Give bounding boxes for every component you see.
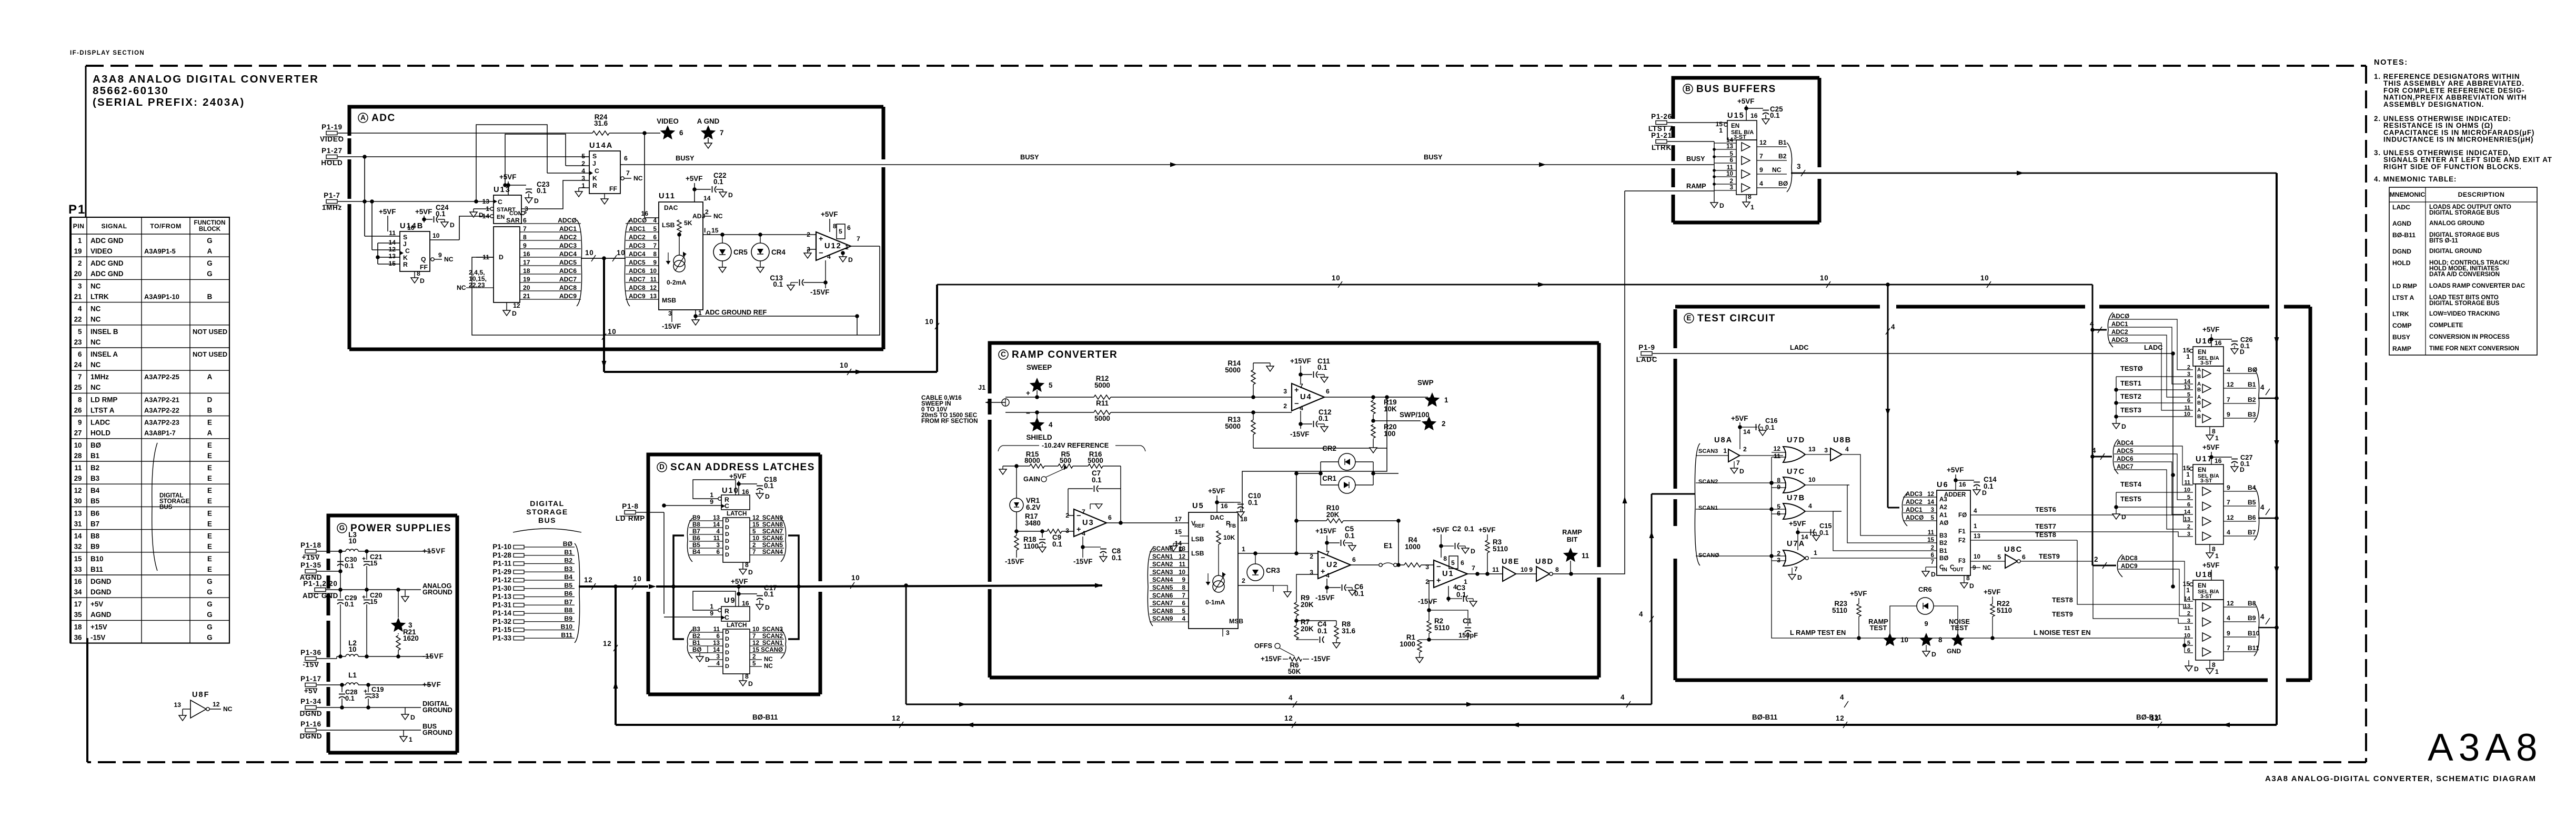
- zener VR1 6.2V: [1010, 498, 1023, 512]
- svg-text:D: D: [207, 396, 213, 403]
- svg-text:C: C: [1001, 350, 1006, 358]
- svg-text:0.1: 0.1: [1052, 540, 1062, 548]
- svg-text:4: 4: [1759, 180, 1763, 187]
- svg-text:E: E: [207, 543, 212, 551]
- svg-text:EN: EN: [1731, 123, 1739, 129]
- svg-text:6: 6: [847, 224, 851, 231]
- svg-text:ADC GND: ADC GND: [90, 259, 124, 267]
- svg-text:BUSY: BUSY: [1424, 153, 1443, 161]
- svg-text:ADC8: ADC8: [629, 285, 646, 291]
- svg-text:2: 2: [581, 160, 585, 167]
- svg-text:GND: GND: [1947, 648, 1961, 655]
- svg-text:11: 11: [2184, 405, 2190, 411]
- svg-text:D: D: [848, 256, 853, 264]
- test point star 3 power: [391, 618, 406, 632]
- svg-text:PIN: PIN: [73, 223, 85, 230]
- brace right U18 outputs: [2254, 603, 2259, 656]
- svg-text:4: 4: [1289, 694, 1293, 702]
- digital storage bus brace top: [513, 529, 581, 532]
- svg-text:SCANØ: SCANØ: [761, 646, 783, 653]
- svg-text:5: 5: [1049, 381, 1053, 389]
- svg-text:+15V: +15V: [90, 623, 107, 631]
- svg-text:LADC: LADC: [90, 419, 110, 427]
- svg-text:−: −: [1076, 512, 1081, 520]
- svg-text:CR1: CR1: [1322, 474, 1336, 482]
- svg-text:4: 4: [1326, 572, 1330, 579]
- svg-text:8: 8: [745, 561, 749, 569]
- svg-text:B6: B6: [90, 509, 99, 517]
- svg-text:E: E: [207, 419, 212, 427]
- block E title: [1684, 314, 1694, 323]
- svg-text:6: 6: [1730, 157, 1734, 164]
- svg-text:LD RMP: LD RMP: [2392, 282, 2417, 290]
- svg-text:SCAN3: SCAN3: [1698, 448, 1718, 454]
- svg-text:5: 5: [752, 660, 756, 667]
- svg-text:BØ: BØ: [1939, 555, 1948, 562]
- svg-text:+: +: [1321, 568, 1325, 576]
- svg-text:B10: B10: [561, 623, 573, 631]
- svg-text:5: 5: [1182, 608, 1186, 614]
- U18 gate column: [2196, 600, 2223, 660]
- svg-text:P1-35: P1-35: [300, 561, 321, 569]
- svg-text:AGND: AGND: [2392, 220, 2411, 227]
- svg-text:+5VF: +5VF: [422, 681, 441, 689]
- svg-text:10K: 10K: [1384, 405, 1397, 413]
- svg-text:6: 6: [2187, 398, 2190, 404]
- svg-text:P1-8: P1-8: [622, 502, 639, 510]
- svg-text:D: D: [725, 538, 729, 544]
- svg-text:17: 17: [1174, 515, 1182, 523]
- svg-text:35: 35: [74, 611, 82, 619]
- svg-text:B5: B5: [90, 497, 100, 505]
- svg-text:D: D: [1797, 574, 1803, 581]
- svg-text:SCAN5: SCAN5: [1152, 584, 1173, 591]
- wire LD RMP to U10 clock: [664, 505, 721, 506]
- wire CR6 loop: [1890, 606, 1917, 638]
- svg-text:LADC: LADC: [1636, 356, 1657, 363]
- svg-text:33: 33: [371, 692, 379, 700]
- svg-text:13: 13: [650, 293, 657, 300]
- svg-text:AGND: AGND: [90, 611, 112, 619]
- svg-text:-15V: -15V: [90, 633, 105, 641]
- svg-text:DGND: DGND: [90, 588, 112, 596]
- svg-text:SCAN6: SCAN6: [1152, 592, 1173, 599]
- svg-text:C: C: [405, 247, 410, 255]
- svg-text:BØ: BØ: [563, 540, 572, 548]
- svg-text:P1-19: P1-19: [321, 123, 343, 131]
- bus 4 scan into gates: [1652, 493, 1695, 495]
- svg-text:A3A8 ANALOG-DIGITAL CONVERTER,: A3A8 ANALOG-DIGITAL CONVERTER, SCHEMATIC…: [2265, 774, 2537, 783]
- svg-text:8: 8: [1182, 584, 1186, 591]
- op-amp U2: [1318, 551, 1351, 579]
- function block E TEST CIRCUIT border: [1675, 305, 1880, 309]
- svg-text:U11: U11: [659, 192, 676, 200]
- svg-text:D: D: [725, 643, 729, 649]
- svg-text:13: 13: [74, 509, 82, 517]
- svg-text:OFFS: OFFS: [1254, 642, 1273, 650]
- op-amp U4: [1292, 383, 1324, 411]
- svg-text:LSB: LSB: [1191, 535, 1204, 543]
- svg-text:ADC3: ADC3: [2111, 337, 2128, 343]
- svg-text:10: 10: [1726, 170, 1733, 177]
- svg-text:1: 1: [1723, 447, 1727, 454]
- svg-text:MNEMONIC: MNEMONIC: [2390, 191, 2426, 198]
- svg-text:D: D: [705, 656, 710, 663]
- svg-text:NOT USED: NOT USED: [193, 328, 227, 336]
- svg-text:6: 6: [78, 350, 82, 358]
- svg-text:B1: B1: [1778, 139, 1787, 146]
- wire U1 output: [1467, 573, 1503, 574]
- svg-text:U8A: U8A: [1714, 436, 1733, 444]
- svg-text:B7: B7: [564, 598, 572, 605]
- svg-text:FF: FF: [609, 185, 617, 193]
- svg-text:TEST9: TEST9: [2052, 610, 2073, 618]
- svg-text:0.1: 0.1: [1464, 525, 1474, 533]
- svg-text:P1-11: P1-11: [493, 560, 512, 568]
- svg-text:E: E: [207, 464, 212, 472]
- svg-text:REF: REF: [1194, 523, 1205, 529]
- ground analog: [405, 590, 406, 597]
- svg-text:+: +: [1026, 389, 1030, 397]
- svg-text:LOADS RAMP CONVERTER DAC: LOADS RAMP CONVERTER DAC: [2429, 282, 2525, 289]
- svg-text:LATCH: LATCH: [727, 510, 747, 517]
- svg-text:C1: C1: [1463, 617, 1472, 625]
- U3 pin7 gnd flag: [1090, 504, 1091, 509]
- svg-text:5000: 5000: [1088, 457, 1103, 464]
- svg-text:B6: B6: [692, 535, 700, 542]
- wire U18 unused input ties: [2185, 645, 2193, 646]
- svg-text:13: 13: [482, 198, 489, 205]
- bus 4 ADC0-3 into test circuit top: [1887, 285, 1889, 508]
- svg-text:2: 2: [1743, 446, 1747, 453]
- svg-text:-15VF: -15VF: [810, 288, 829, 296]
- svg-text:4: 4: [717, 528, 720, 535]
- svg-text:+5VF: +5VF: [1984, 588, 2000, 596]
- svg-text:3: 3: [2187, 371, 2190, 378]
- svg-text:A: A: [207, 373, 213, 381]
- svg-text:−: −: [819, 249, 823, 258]
- test point star SHIELD 4: [1030, 417, 1045, 431]
- svg-text:+5VF: +5VF: [731, 578, 748, 585]
- svg-text:26: 26: [74, 406, 82, 414]
- svg-text:TEST CIRCUIT: TEST CIRCUIT: [1697, 313, 1776, 324]
- svg-text:3-ST: 3-ST: [2200, 478, 2212, 484]
- svg-text:NOT USED: NOT USED: [193, 350, 227, 358]
- svg-text:500: 500: [1060, 457, 1071, 464]
- svg-text:DGND: DGND: [90, 578, 112, 585]
- svg-text:VIDEO: VIDEO: [90, 247, 113, 255]
- svg-text:13: 13: [1808, 446, 1816, 453]
- svg-text:4: 4: [827, 253, 831, 260]
- ground under U18 left: [2188, 660, 2189, 666]
- svg-text:FROM RF SECTION: FROM RF SECTION: [921, 418, 978, 424]
- svg-text:C2: C2: [1452, 525, 1461, 533]
- U17 gate column: [2196, 484, 2223, 544]
- block A title: [358, 113, 368, 123]
- svg-text:FB: FB: [1229, 523, 1236, 529]
- svg-text:D: D: [479, 211, 484, 219]
- svg-text:4: 4: [2260, 503, 2265, 511]
- svg-text:TEST3: TEST3: [2120, 406, 2141, 414]
- wire C7 to U3 minus: [1068, 489, 1074, 515]
- svg-text:7: 7: [1736, 459, 1740, 467]
- svg-text:ADC1: ADC1: [559, 225, 577, 232]
- bus 10 vertical to ADC bundles right: [2092, 285, 2094, 565]
- svg-text:SCAN9: SCAN9: [1152, 615, 1173, 622]
- svg-text:A3A7P2-23: A3A7P2-23: [144, 419, 179, 427]
- svg-text:B11: B11: [90, 565, 103, 573]
- svg-text:B6: B6: [2248, 514, 2256, 521]
- svg-text:MSB: MSB: [662, 297, 676, 304]
- digital storage bus brace in P1 table: [152, 443, 157, 571]
- svg-text:A3A8P1-7: A3A8P1-7: [144, 429, 176, 437]
- svg-text:9: 9: [710, 498, 713, 506]
- svg-text:LTST A: LTST A: [2392, 294, 2414, 301]
- svg-text:+5VF: +5VF: [1731, 414, 1748, 422]
- svg-text:F1: F1: [1958, 528, 1966, 535]
- svg-text:SCAN3: SCAN3: [762, 626, 783, 633]
- svg-text:B5: B5: [692, 542, 700, 549]
- svg-text:15: 15: [370, 559, 377, 567]
- svg-text:LSB: LSB: [1191, 550, 1204, 557]
- svg-text:G: G: [207, 237, 212, 245]
- buffer U15 gate column: [1736, 140, 1757, 195]
- svg-text:SCAN2: SCAN2: [1152, 561, 1173, 568]
- svg-text:BLOCK: BLOCK: [199, 226, 221, 232]
- wire +15V filter caps: [340, 551, 341, 590]
- svg-text:5: 5: [2187, 494, 2190, 501]
- svg-text:7: 7: [857, 235, 860, 242]
- svg-text:TEST: TEST: [1870, 624, 1887, 632]
- svg-text:23: 23: [74, 338, 82, 346]
- svg-text:B: B: [1685, 85, 1690, 93]
- bus ADC data 10 to test circuit: [937, 284, 2092, 286]
- svg-text:+5VF: +5VF: [1850, 590, 1867, 598]
- svg-text:100: 100: [1384, 430, 1395, 438]
- svg-text:9: 9: [523, 242, 527, 249]
- svg-text:DATA A/D CONVERSION: DATA A/D CONVERSION: [2429, 271, 2500, 278]
- svg-text:SCAN4: SCAN4: [1152, 577, 1173, 583]
- wires ADC4-7 to U17 A pins: [2136, 446, 2193, 485]
- svg-text:B: B: [207, 292, 213, 300]
- svg-text:10: 10: [1521, 566, 1528, 573]
- svg-text:0.1: 0.1: [537, 187, 547, 195]
- wire U4 output: [1324, 397, 1424, 398]
- svg-text:7: 7: [78, 373, 82, 381]
- svg-text:5: 5: [581, 153, 585, 160]
- svg-text:GROUND: GROUND: [422, 706, 452, 714]
- svg-text:A3A8 ANALOG DIGITAL CONVERTER: A3A8 ANALOG DIGITAL CONVERTER: [93, 73, 319, 85]
- svg-text:D: D: [725, 663, 729, 670]
- svg-text:+5VF: +5VF: [686, 175, 702, 183]
- svg-text:10: 10: [752, 535, 759, 542]
- svg-text:7: 7: [1326, 550, 1330, 557]
- svg-text:31: 31: [74, 520, 82, 528]
- svg-text:0.1: 0.1: [1770, 112, 1780, 119]
- svg-text:16: 16: [2215, 339, 2222, 347]
- svg-text:BØ: BØ: [692, 646, 701, 653]
- svg-text:ASSEMBLY DESIGNATION.: ASSEMBLY DESIGNATION.: [2383, 100, 2484, 108]
- svg-text:16: 16: [742, 600, 749, 607]
- svg-text:7: 7: [1082, 508, 1085, 515]
- SAR outputs bundle ADC0-ADC9: [520, 223, 581, 224]
- bus 10 exits ADC block bottom: [602, 361, 607, 368]
- svg-text:U6: U6: [1937, 481, 1949, 489]
- svg-text:J: J: [403, 240, 407, 248]
- svg-text:NC: NC: [1983, 564, 1991, 571]
- svg-text:MSB: MSB: [1229, 618, 1243, 625]
- svg-text:U8F: U8F: [192, 691, 210, 699]
- svg-text:12: 12: [2227, 381, 2234, 388]
- svg-text:D: D: [2194, 665, 2199, 673]
- svg-text:P1-26: P1-26: [1651, 113, 1672, 120]
- wire HOLD: [338, 156, 589, 157]
- svg-text:9: 9: [653, 259, 657, 266]
- wire DGND digital ground: [317, 707, 421, 708]
- current source 0-2mA inside U11: [673, 255, 685, 267]
- svg-text:12: 12: [513, 302, 520, 309]
- svg-text:BØ-B11: BØ-B11: [2136, 713, 2162, 721]
- svg-text:G: G: [207, 270, 212, 278]
- U16 gate column: [2196, 366, 2223, 427]
- svg-text:9: 9: [1777, 483, 1780, 491]
- svg-text:0.1: 0.1: [1345, 532, 1355, 540]
- svg-text:GAIN: GAIN: [1023, 475, 1040, 483]
- bus corner down right rail: [2276, 173, 2278, 725]
- svg-text:4: 4: [1082, 530, 1085, 537]
- svg-text:10: 10: [840, 361, 849, 369]
- svg-text:+5VF: +5VF: [1432, 526, 1449, 534]
- svg-text:-15VF: -15VF: [1073, 558, 1092, 565]
- buffer U8D: [1536, 567, 1549, 581]
- svg-text:P1-15: P1-15: [492, 626, 511, 634]
- svg-text:BITS Ø-11: BITS Ø-11: [2429, 237, 2458, 244]
- svg-text:7: 7: [752, 633, 756, 640]
- svg-text:C: C: [724, 614, 729, 621]
- svg-text:B8: B8: [90, 532, 100, 540]
- thick stub bus to U9 right: [788, 587, 799, 639]
- svg-text:D: D: [1931, 651, 1937, 658]
- svg-text:10: 10: [2184, 411, 2190, 418]
- svg-text:-15VF: -15VF: [1311, 655, 1330, 663]
- U18 output pins: [2223, 606, 2256, 608]
- svg-text:NC: NC: [90, 316, 101, 323]
- svg-text:E: E: [207, 452, 212, 460]
- svg-text:P1-36: P1-36: [300, 649, 321, 656]
- svg-text:R11: R11: [1096, 399, 1109, 407]
- svg-text:1: 1: [581, 182, 585, 189]
- svg-text:12: 12: [650, 285, 657, 291]
- svg-text:EN: EN: [2198, 582, 2206, 589]
- svg-text:12: 12: [1773, 445, 1780, 452]
- svg-text:3: 3: [1931, 507, 1935, 513]
- svg-text:D: D: [534, 197, 539, 205]
- svg-text:U7C: U7C: [1787, 468, 1805, 476]
- svg-text:1: 1: [1814, 549, 1817, 557]
- svg-text:G: G: [207, 588, 212, 596]
- svg-text:B11: B11: [561, 631, 572, 639]
- svg-text:6: 6: [1931, 552, 1935, 559]
- svg-text:B2: B2: [2248, 396, 2256, 403]
- svg-text:U16: U16: [2196, 337, 2213, 346]
- svg-text:DIGITAL STORAGE BUS: DIGITAL STORAGE BUS: [2429, 209, 2500, 216]
- svg-text:TESTØ: TESTØ: [2120, 365, 2143, 372]
- svg-text:SCAN0: SCAN0: [1152, 545, 1173, 552]
- svg-text:2: 2: [1283, 402, 1287, 410]
- svg-text:10: 10: [349, 537, 357, 545]
- svg-text:VIDEO: VIDEO: [320, 135, 344, 143]
- resistor 10K inside U5: [1216, 531, 1221, 544]
- svg-text:16: 16: [2215, 457, 2222, 464]
- svg-text:ADC5: ADC5: [2117, 448, 2134, 454]
- svg-text:HOLD: HOLD: [90, 429, 110, 437]
- svg-text:1: 1: [845, 244, 849, 251]
- svg-text:P1-14: P1-14: [492, 609, 511, 617]
- svg-text:+5VF: +5VF: [1789, 520, 1806, 528]
- svg-text:RIGHT SIDE OF FUNCTION BLOCKS.: RIGHT SIDE OF FUNCTION BLOCKS.: [2383, 163, 2522, 170]
- svg-text:3-ST: 3-ST: [2200, 360, 2212, 366]
- svg-text:L RAMP TEST EN: L RAMP TEST EN: [1790, 629, 1846, 636]
- svg-text:SCAN1: SCAN1: [1152, 553, 1173, 560]
- svg-text:5: 5: [653, 226, 657, 232]
- svg-text:BØ-B11: BØ-B11: [2392, 231, 2416, 239]
- svg-text:+5VF: +5VF: [1478, 526, 1495, 534]
- svg-text:9: 9: [1759, 166, 1763, 174]
- svg-text:SWEEP: SWEEP: [1027, 363, 1052, 371]
- svg-text:CONVERSION IN PROCESS: CONVERSION IN PROCESS: [2429, 333, 2510, 340]
- wire sweep minus: [1005, 412, 1094, 413]
- svg-text:5110: 5110: [1832, 606, 1847, 614]
- svg-text:12: 12: [388, 246, 396, 253]
- svg-text:ADCØ: ADCØ: [629, 217, 647, 224]
- svg-text:7: 7: [653, 242, 657, 249]
- svg-text:B4: B4: [692, 549, 700, 555]
- svg-text:LTRK: LTRK: [1652, 144, 1672, 151]
- svg-text:7: 7: [752, 549, 756, 555]
- svg-text:P1-31: P1-31: [492, 601, 511, 609]
- svg-text:22: 22: [74, 316, 82, 323]
- svg-text:LADC: LADC: [1790, 343, 1809, 351]
- mnemonic table: [2389, 187, 2537, 355]
- svg-text:CR6: CR6: [1918, 585, 1932, 593]
- svg-text:NC: NC: [223, 705, 233, 713]
- svg-text:BIT: BIT: [1567, 535, 1578, 543]
- op-amp U12: [816, 232, 851, 260]
- wire LD RMP: [636, 512, 664, 513]
- svg-text:U2: U2: [1326, 561, 1339, 569]
- function block G POWER SUPPLIES border: [328, 515, 457, 553]
- wire 10-bit bus between braces: [581, 258, 626, 259]
- op-amp U3: [1074, 509, 1106, 537]
- svg-text:5000: 5000: [1225, 422, 1241, 430]
- svg-text:0-2mA: 0-2mA: [667, 279, 686, 286]
- svg-text:-15VF: -15VF: [1290, 430, 1309, 438]
- svg-text:2: 2: [78, 259, 82, 267]
- svg-text:B1: B1: [692, 640, 700, 646]
- svg-text:5000: 5000: [1094, 414, 1110, 422]
- svg-text:10: 10: [925, 318, 934, 326]
- svg-text:4: 4: [1840, 693, 1844, 701]
- svg-text:ADC2: ADC2: [629, 234, 646, 241]
- svg-text:5110: 5110: [1434, 624, 1450, 632]
- svg-text:17: 17: [74, 600, 82, 608]
- svg-text:ADC8: ADC8: [559, 284, 577, 291]
- svg-text:4: 4: [1845, 446, 1849, 453]
- svg-text:6: 6: [717, 633, 720, 640]
- svg-text:ANALOG GROUND: ANALOG GROUND: [2429, 220, 2484, 227]
- svg-text:2: 2: [705, 208, 709, 216]
- current source 0-1mA inside U5: [1213, 575, 1224, 587]
